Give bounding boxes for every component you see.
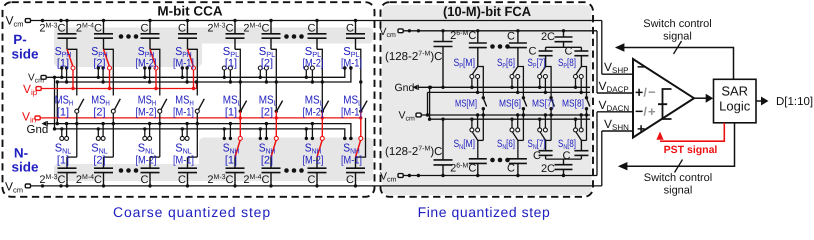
svg-text:[2]: [2] bbox=[93, 58, 105, 70]
label MS_H[2] bbox=[91, 95, 109, 119]
value label P-side col3 bbox=[141, 23, 149, 35]
label V_cm FCA mid bbox=[399, 110, 416, 123]
label Gnd FCA bbox=[395, 82, 415, 94]
label V_SHN bbox=[604, 117, 629, 132]
value label P-side col5 bbox=[207, 23, 233, 35]
svg-text:side: side bbox=[11, 47, 39, 62]
switch S_PL[M-2] bbox=[304, 49, 324, 109]
wire FCA cross-link vertical 2 bbox=[428, 86, 431, 121]
capacitor (128-2^7-M)C N-side bbox=[434, 118, 453, 176]
svg-text:SP[8]: SP[8] bbox=[558, 57, 576, 70]
label V_DACP bbox=[599, 79, 629, 94]
capacitor C P-side col8 bbox=[346, 21, 365, 50]
svg-text:[1]: [1] bbox=[57, 107, 69, 119]
label Switch control signal top bbox=[643, 18, 711, 43]
capacitor 2C N-side FCA bbox=[555, 159, 573, 175]
switch S_N[6] bbox=[510, 113, 523, 140]
label MS_L[1] bbox=[223, 95, 242, 119]
port V_cm top-left bbox=[25, 19, 30, 23]
dots FCA N-side bbox=[490, 158, 510, 163]
switch MS[6] bbox=[522, 96, 527, 140]
wire PST signal (red) bbox=[656, 123, 724, 141]
ground symbol CCA bbox=[42, 121, 48, 126]
switch MS_H[M-1] bbox=[188, 99, 205, 157]
svg-text:Switch control: Switch control bbox=[644, 172, 712, 184]
dots P-side group1 bbox=[119, 34, 139, 39]
svg-text:SN[7]: SN[7] bbox=[528, 138, 546, 151]
svg-text:[1]: [1] bbox=[57, 155, 69, 167]
svg-text:−: − bbox=[635, 103, 643, 119]
svg-text:C: C bbox=[529, 46, 537, 58]
value label C N-side FCA col6 bbox=[507, 163, 515, 175]
value label N-side col7 bbox=[308, 174, 316, 186]
capacitor M4 P-side col2 bbox=[94, 21, 113, 50]
value label N-side col3 bbox=[141, 174, 149, 186]
svg-text:SN[M]: SN[M] bbox=[454, 138, 476, 151]
label S_PH[1] bbox=[55, 46, 72, 70]
value label N-side col4 bbox=[178, 174, 186, 186]
wire switch control signal bottom bbox=[618, 123, 735, 171]
caption Coarse quantized step bbox=[113, 204, 271, 220]
label S_PL[M-1] bbox=[341, 46, 362, 70]
svg-text:[M-1]: [M-1] bbox=[173, 58, 194, 70]
label Gnd CCA bbox=[27, 124, 49, 136]
port V_cm mid-left bbox=[41, 75, 46, 79]
ground symbol FCA bbox=[413, 85, 419, 90]
value label 2^6-M C P-side FCA bbox=[450, 30, 476, 42]
switch MS_L[M-2] bbox=[321, 101, 329, 137]
value label P-side col6 bbox=[243, 23, 269, 35]
label V_in (red) bbox=[22, 110, 36, 125]
port V_cm FCA bottom bbox=[398, 174, 403, 178]
svg-text:[M-1]: [M-1] bbox=[341, 58, 362, 70]
svg-text:[M-2]: [M-2] bbox=[136, 107, 157, 119]
svg-text:Coarse quantized step: Coarse quantized step bbox=[113, 204, 271, 220]
value label P-side col2 bbox=[76, 23, 102, 35]
label S_NL[M-1] bbox=[173, 143, 194, 167]
dots N-side group1 bbox=[119, 168, 139, 173]
capacitor C P-side FCA col7 bbox=[539, 47, 553, 66]
label S_NL[M-2] bbox=[136, 143, 157, 167]
label V_SHP bbox=[604, 60, 628, 75]
label S_N[6] bbox=[497, 138, 515, 151]
svg-text:N-: N- bbox=[14, 146, 28, 161]
label V_cm top-left bbox=[6, 14, 24, 29]
CCA gray band behind N-side S_NH switch group bbox=[199, 138, 373, 182]
svg-text:C: C bbox=[346, 23, 354, 35]
svg-text:C: C bbox=[507, 163, 515, 175]
svg-text:SP[M]: SP[M] bbox=[454, 57, 476, 70]
CCA gray band behind P-side capacitor row bbox=[54, 28, 373, 44]
SAR Logic box bbox=[714, 79, 757, 123]
label S_NL[2] bbox=[91, 143, 108, 167]
svg-text:SP[6]: SP[6] bbox=[497, 57, 515, 70]
label MS_H[1] bbox=[55, 95, 73, 119]
op-amp comparator U1 bbox=[633, 59, 694, 138]
svg-text:(128-27-M)C: (128-27-M)C bbox=[385, 146, 442, 159]
switch S_NH[M-2] bbox=[305, 122, 325, 157]
label S_PH[M-2] bbox=[136, 46, 157, 70]
label D[1:10] bbox=[776, 96, 813, 108]
label N-side bbox=[11, 146, 39, 175]
svg-text:[M-2]: [M-2] bbox=[303, 58, 324, 70]
label MS[6] bbox=[499, 99, 521, 110]
CCA gray band behind P-side S_PH switch group bbox=[54, 28, 202, 68]
label S_N[M] bbox=[454, 138, 476, 151]
label MS_L[2] bbox=[259, 95, 278, 119]
switch MS_H[M-2] bbox=[150, 99, 167, 157]
svg-text:C: C bbox=[533, 150, 541, 162]
value label 2C N-side FCA bbox=[541, 163, 555, 175]
svg-text:C: C bbox=[141, 174, 149, 186]
label Switch control signal bottom bbox=[644, 172, 712, 197]
svg-text:2C: 2C bbox=[541, 31, 555, 43]
svg-text:signal: signal bbox=[663, 31, 692, 43]
capacitor M4 N-side col6 bbox=[262, 157, 281, 186]
capacitor M3 P-side col1 bbox=[58, 21, 77, 50]
value label C P-side FCA col7 bbox=[529, 46, 537, 58]
svg-text:SAR: SAR bbox=[721, 84, 748, 99]
caption Fine quantized step bbox=[418, 204, 551, 220]
capacitor (128-2^7-M)C P-side bbox=[434, 31, 453, 89]
value label P-side col8 bbox=[346, 23, 354, 35]
wire V_cm mid rail P-side bbox=[47, 66, 347, 77]
switch S_PL[2] bbox=[258, 49, 278, 109]
svg-text:[1]: [1] bbox=[225, 107, 237, 119]
svg-text:C: C bbox=[308, 174, 316, 186]
wire rail X2 N-side bbox=[56, 129, 346, 140]
wire comparator input V_DACN bbox=[597, 111, 633, 113]
label V_cm mid-left bbox=[28, 73, 44, 85]
label S_P[6] bbox=[497, 57, 515, 70]
switch S_P[6] bbox=[510, 67, 523, 98]
capacitor C N-side FCA col7 bbox=[539, 140, 553, 159]
wire switch control signal top bbox=[615, 43, 734, 79]
switch S_N[7] bbox=[538, 113, 551, 140]
wire rail FX2 FCA bbox=[428, 91, 591, 93]
label S_NH[1] bbox=[223, 143, 240, 167]
svg-text:C: C bbox=[178, 174, 186, 186]
value label P-side col7 bbox=[308, 23, 316, 35]
CCA gray band behind N-side capacitor row bbox=[54, 164, 373, 181]
port V_in (red) bbox=[35, 116, 40, 120]
comparator input sign -/+ bbox=[635, 103, 656, 119]
label S_NH[2] bbox=[259, 143, 276, 167]
label MS_L[M-1] bbox=[341, 95, 362, 119]
switch MS_L[2] bbox=[275, 101, 283, 137]
label S_N[7] bbox=[528, 138, 546, 151]
label SAR Logic bbox=[719, 84, 751, 114]
wire comparator input V_SHN bbox=[602, 130, 633, 132]
svg-text:MS[8]: MS[8] bbox=[562, 99, 584, 110]
wire cross-link left vertical 1 bbox=[53, 76, 56, 131]
label S_N[8] bbox=[558, 138, 576, 151]
svg-text:C: C bbox=[507, 31, 515, 43]
switch S_NL[M-1] bbox=[180, 122, 189, 140]
wire FCA top rail to V_DACP bus bbox=[404, 29, 598, 93]
capacitor C P-side FCA col6 bbox=[509, 31, 527, 67]
wire FCA bottom rail to V_DACN bus bbox=[404, 112, 598, 177]
value label C P-side FCA col6 bbox=[507, 31, 515, 43]
wire D output bbox=[756, 97, 769, 106]
capacitor M4 P-side col6 bbox=[262, 21, 281, 50]
wire cross-link left vertical 2 bbox=[56, 80, 59, 125]
capacitor C N-side col4 bbox=[178, 157, 197, 186]
svg-text:[M-1]: [M-1] bbox=[173, 155, 194, 167]
capacitor C P-side col4 bbox=[178, 21, 197, 50]
svg-text:[M-1]: [M-1] bbox=[173, 107, 194, 119]
capacitor M3 P-side col5 bbox=[226, 21, 245, 50]
switch S_PH[2] bbox=[97, 49, 114, 95]
svg-text:[M-2]: [M-2] bbox=[303, 155, 324, 167]
capacitor M3 N-side col5 bbox=[226, 157, 245, 186]
svg-text:[2]: [2] bbox=[261, 155, 273, 167]
capacitor C N-side col8 bbox=[346, 157, 365, 186]
switch MS_H[2] bbox=[104, 99, 121, 157]
wire rail X2 P-side bbox=[57, 66, 352, 82]
svg-text:C: C bbox=[563, 150, 571, 162]
svg-text:Gnd: Gnd bbox=[27, 124, 49, 136]
dashed box (10-M)-bit FCA bbox=[381, 2, 594, 197]
port V_ip (red) bbox=[36, 87, 41, 91]
capacitor C N-side FCA col8 bbox=[574, 140, 588, 159]
label MS[8] bbox=[562, 99, 584, 110]
switch MS[7] bbox=[549, 96, 554, 140]
wire V_cm mid rail FCA bbox=[422, 114, 591, 116]
value label (128-2^7-M)C P-side bbox=[385, 51, 442, 64]
label S_NL[1] bbox=[55, 143, 72, 167]
switch S_PH[1] bbox=[60, 49, 77, 95]
switch S_P[7] bbox=[538, 67, 551, 98]
capacitor 2^6-M C N-side FCA bbox=[469, 140, 487, 175]
svg-text:side: side bbox=[11, 160, 39, 175]
switch S_N[8] bbox=[574, 113, 587, 140]
svg-text:MS[7]: MS[7] bbox=[532, 99, 554, 110]
svg-text:[M-1]: [M-1] bbox=[341, 107, 362, 119]
label S_P[7] bbox=[528, 57, 546, 70]
switch MS[8] bbox=[585, 96, 590, 140]
value label C N-side FCA col7 bbox=[533, 150, 541, 162]
label MS_H[M-2] bbox=[136, 95, 157, 119]
svg-text:[1]: [1] bbox=[225, 58, 237, 70]
wire rail FX2B FCA bbox=[430, 118, 590, 120]
svg-text:−: − bbox=[637, 59, 645, 75]
value label 2C P-side FCA bbox=[541, 31, 555, 43]
svg-text:[2]: [2] bbox=[261, 107, 273, 119]
value label C N-side FCA col8 bbox=[563, 150, 571, 162]
label V_cm FCA top bbox=[380, 26, 397, 39]
label V_DACN bbox=[599, 98, 630, 113]
svg-text:C: C bbox=[565, 46, 573, 58]
wire comparator input V_SHP bbox=[602, 73, 633, 75]
capacitor C P-side col3 bbox=[141, 21, 160, 50]
label MS_L[M-2] bbox=[303, 95, 324, 119]
svg-text:D[1:10]: D[1:10] bbox=[776, 96, 813, 108]
svg-text:[1]: [1] bbox=[57, 58, 69, 70]
svg-text:[M-1]: [M-1] bbox=[341, 155, 362, 167]
svg-text:−: − bbox=[648, 85, 656, 100]
value label 2^6-M C N-side FCA bbox=[450, 163, 476, 175]
svg-text:2C: 2C bbox=[541, 163, 555, 175]
port V_cm bottom-left bbox=[25, 184, 30, 188]
comparator input sign +/- bbox=[635, 84, 656, 100]
svg-text:Fine quantized step: Fine quantized step bbox=[418, 204, 551, 220]
capacitor 2C P-side FCA bbox=[555, 31, 573, 48]
value label (128-2^7-M)C N-side bbox=[385, 146, 442, 159]
svg-text:signal: signal bbox=[664, 185, 693, 197]
svg-text:M-bit CCA: M-bit CCA bbox=[157, 4, 222, 19]
value label N-side col2 bbox=[76, 174, 102, 186]
dots P-side group2 bbox=[284, 34, 304, 39]
dots N-side group2 bbox=[284, 168, 304, 173]
value label C P-side FCA col8 bbox=[565, 46, 573, 58]
label S_NH[M-2] bbox=[303, 143, 324, 167]
title (10-M)-bit FCA bbox=[443, 4, 531, 19]
switch MS_L[1] bbox=[239, 101, 247, 137]
svg-text:(10-M)-bit FCA: (10-M)-bit FCA bbox=[443, 4, 531, 19]
capacitor M3 N-side col1 bbox=[58, 157, 77, 186]
label S_NH[M-1] bbox=[341, 143, 362, 167]
label S_PL[1] bbox=[223, 46, 240, 70]
label S_PH[M-1] bbox=[173, 46, 194, 70]
switch S_P[M] bbox=[470, 67, 483, 98]
svg-text:[2]: [2] bbox=[261, 58, 273, 70]
capacitor C P-side col7 bbox=[308, 21, 327, 50]
capacitor C P-side FCA col8 bbox=[574, 47, 588, 66]
label S_P[8] bbox=[558, 57, 576, 70]
switch S_NH[1] bbox=[223, 122, 243, 157]
switch S_N[M] bbox=[470, 113, 483, 140]
switch S_NL[M-2] bbox=[143, 122, 152, 140]
label MS_H[M-1] bbox=[173, 95, 194, 119]
switch S_PH[M-1] bbox=[181, 49, 198, 95]
switch S_NL[1] bbox=[60, 122, 69, 140]
value label N-side col5 bbox=[207, 174, 233, 186]
svg-text:[1]: [1] bbox=[225, 155, 237, 167]
svg-text:(128-27-M)C: (128-27-M)C bbox=[385, 51, 442, 64]
label V_cm FCA bottom bbox=[380, 171, 397, 184]
svg-text:[2]: [2] bbox=[93, 155, 105, 167]
switch S_PL[1] bbox=[222, 49, 242, 109]
label S_PH[2] bbox=[91, 46, 108, 70]
svg-text:C: C bbox=[178, 23, 186, 35]
label V_ip (red) bbox=[23, 82, 38, 97]
capacitor 2^6-M C P-side FCA bbox=[469, 31, 487, 67]
bus slash bottom bbox=[675, 160, 683, 173]
svg-text:P-: P- bbox=[13, 32, 27, 47]
svg-text:[M-2]: [M-2] bbox=[136, 58, 157, 70]
wire 2C split bar P-side bbox=[546, 46, 582, 48]
comparator input sign plus bottom bbox=[637, 121, 645, 137]
switch S_PH[M-2] bbox=[143, 49, 160, 95]
wire CCA bottom-plate rail N-side to comparator V_SHN bus bbox=[31, 131, 602, 188]
label PST signal (red) bbox=[664, 144, 718, 156]
port V_cm FCA mid bbox=[416, 113, 421, 117]
value label P-side col4 bbox=[178, 23, 186, 35]
switch S_NL[2] bbox=[96, 122, 105, 140]
FCA interior gray fill bbox=[382, 5, 592, 195]
switch S_NH[2] bbox=[259, 122, 279, 157]
wire comparator input V_DACP bbox=[597, 92, 633, 94]
dots FCA P-side bbox=[490, 44, 510, 49]
label S_PL[2] bbox=[259, 46, 276, 70]
value label P-side col1 bbox=[39, 23, 65, 35]
value label N-side col6 bbox=[243, 174, 269, 186]
wire comparator output bbox=[694, 94, 713, 103]
svg-text:C: C bbox=[346, 174, 354, 186]
svg-text:Logic: Logic bbox=[719, 99, 751, 114]
switch MS[M] bbox=[482, 96, 487, 140]
bus slash top bbox=[674, 41, 682, 54]
wire CCA top-plate rail P-side to comparator V_SHP bus bbox=[31, 19, 602, 74]
switch S_NH[M-1] bbox=[343, 118, 365, 157]
switch S_P[8] bbox=[574, 67, 587, 98]
switch MS_H[1] bbox=[67, 99, 84, 157]
capacitor M4 N-side col2 bbox=[94, 157, 113, 186]
wire 2C split bar N-side bbox=[546, 158, 582, 160]
svg-text:[2]: [2] bbox=[93, 107, 105, 119]
label V_cm bottom-left bbox=[5, 180, 23, 195]
port V_cm FCA top bbox=[398, 29, 403, 33]
label S_PL[M-2] bbox=[303, 46, 324, 70]
label MS[M] bbox=[455, 99, 477, 110]
svg-text:C: C bbox=[141, 23, 149, 35]
svg-text:SN[6]: SN[6] bbox=[497, 138, 515, 151]
switch MS_L[M-1] bbox=[359, 101, 367, 137]
wire V_ip rail (red) bbox=[42, 80, 199, 88]
capacitor C N-side FCA col6 bbox=[509, 140, 527, 175]
svg-text:[M-2]: [M-2] bbox=[303, 107, 324, 119]
svg-text:+: + bbox=[648, 104, 656, 119]
wire Gnd rail CCA bbox=[48, 124, 353, 140]
capacitor C N-side col3 bbox=[141, 157, 160, 186]
svg-text:MS[M]: MS[M] bbox=[455, 99, 477, 110]
wire V_in rail (red) bbox=[41, 117, 362, 119]
switch S_PL[M-1] bbox=[343, 49, 362, 109]
capacitor C N-side col7 bbox=[308, 157, 327, 186]
svg-text:[M-2]: [M-2] bbox=[136, 155, 157, 167]
value label N-side col8 bbox=[346, 174, 354, 186]
value label N-side col1 bbox=[39, 174, 65, 186]
svg-text:Gnd: Gnd bbox=[395, 82, 415, 94]
svg-text:SP[7]: SP[7] bbox=[528, 57, 546, 70]
comparator latch symbol bbox=[658, 89, 672, 119]
svg-text:SN[8]: SN[8] bbox=[558, 138, 576, 151]
svg-text:+: + bbox=[637, 121, 645, 137]
comparator input sign minus top bbox=[637, 59, 645, 75]
svg-text:Switch control: Switch control bbox=[643, 18, 711, 30]
title M-bit CCA bbox=[157, 4, 222, 19]
wire FCA cross-link vertical 1 bbox=[426, 92, 429, 116]
svg-text:+: + bbox=[635, 84, 643, 100]
svg-text:C: C bbox=[308, 23, 316, 35]
dashed box M-bit CCA bbox=[3, 2, 375, 197]
label P-side bbox=[11, 32, 39, 62]
label S_P[M] bbox=[454, 57, 476, 70]
wire Gnd rail FCA bbox=[419, 86, 591, 89]
svg-text:MS[6]: MS[6] bbox=[499, 99, 521, 110]
svg-text:PST signal: PST signal bbox=[664, 144, 718, 156]
label MS[7] bbox=[532, 99, 554, 110]
